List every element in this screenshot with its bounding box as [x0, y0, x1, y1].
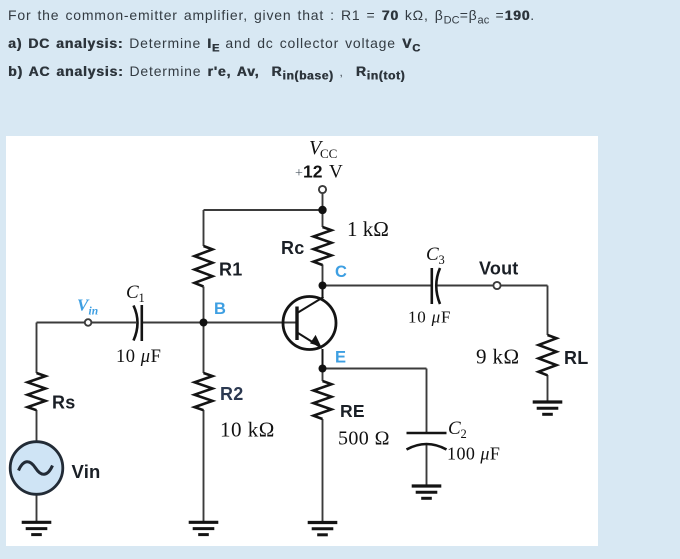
- svg-text:R1: R1: [219, 260, 242, 280]
- svg-text:Rs: Rs: [52, 393, 75, 413]
- svg-text:RL: RL: [564, 348, 588, 368]
- svg-text:3: 3: [439, 253, 445, 267]
- svg-text:C: C: [426, 244, 439, 265]
- svg-text:Vin: Vin: [72, 461, 101, 482]
- svg-text:Vout: Vout: [479, 259, 518, 279]
- svg-text:500 Ω: 500 Ω: [338, 428, 390, 450]
- svg-text:B: B: [214, 300, 226, 318]
- svg-text:RE: RE: [340, 401, 365, 421]
- svg-text:E: E: [335, 349, 346, 367]
- svg-text:100 μF: 100 μF: [447, 444, 500, 464]
- svg-text:2: 2: [461, 427, 467, 441]
- svg-text:Rc: Rc: [281, 238, 304, 258]
- svg-text:10 μF: 10 μF: [408, 308, 451, 327]
- svg-text:C: C: [126, 282, 139, 303]
- svg-text:12: 12: [303, 162, 323, 182]
- svg-text:+: +: [295, 166, 303, 181]
- svg-text:10 μF: 10 μF: [116, 347, 161, 367]
- svg-text:1 kΩ: 1 kΩ: [347, 217, 389, 241]
- svg-text:10 kΩ: 10 kΩ: [220, 418, 275, 442]
- svg-text:1: 1: [139, 291, 145, 305]
- svg-text:C: C: [335, 263, 347, 281]
- svg-text:R2: R2: [220, 384, 243, 404]
- svg-text:C: C: [448, 418, 461, 439]
- svg-text:V: V: [329, 162, 343, 183]
- svg-text:CC: CC: [320, 146, 337, 161]
- svg-text:in: in: [89, 306, 99, 318]
- svg-text:9 kΩ: 9 kΩ: [476, 345, 519, 369]
